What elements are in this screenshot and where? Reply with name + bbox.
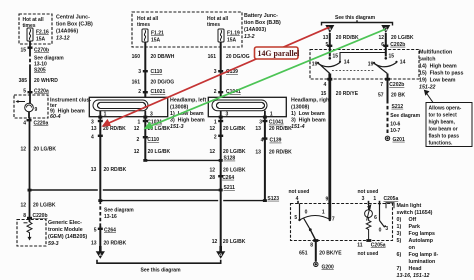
- svg-text:3: 3: [138, 69, 141, 75]
- svg-text:(13008): (13008): [170, 105, 188, 111]
- svg-text:20 LG/BK: 20 LG/BK: [223, 239, 246, 245]
- svg-text:Central Junc-: Central Junc-: [56, 15, 90, 21]
- svg-text:Headlamp, left: Headlamp, left: [170, 98, 206, 104]
- svg-text:Fog lamps: Fog lamps: [409, 231, 436, 237]
- svg-text:S211: S211: [224, 185, 236, 191]
- wire 13 20 RD/BK node A to multifunction switch: [329, 33, 331, 57]
- svg-text:12: 12: [134, 126, 140, 132]
- wire 12 20 LG/BK S128 to C264: [209, 167, 245, 173]
- svg-text:functions.: functions.: [429, 141, 453, 147]
- svg-text:20 RD/BK: 20 RD/BK: [269, 150, 292, 156]
- headlamp right pin 1 stub: [264, 111, 266, 121]
- svg-text:flash to pass: flash to pass: [429, 134, 460, 140]
- rotary pin 4 stub: [299, 204, 301, 220]
- wire 12 20 LG/BK S211 to GEM: [29, 190, 31, 222]
- svg-text:19: 19: [312, 61, 318, 67]
- svg-text:20 LG/BK: 20 LG/BK: [391, 35, 414, 41]
- wire dashed S212 segment: [387, 100, 389, 135]
- wire 12 20 LG/BK S211 down to arrow: [220, 190, 222, 246]
- wire 12 20 LG/BK node G to multifunction switch: [385, 33, 387, 57]
- svg-text:G200: G200: [322, 264, 334, 270]
- svg-text:switch (11654): switch (11654): [397, 210, 433, 216]
- svg-text:12: 12: [378, 35, 384, 41]
- svg-text:1: 1: [214, 120, 217, 126]
- multifunction left contacts 15 19 14: [317, 57, 341, 64]
- connector C220b pin 8: [23, 213, 47, 219]
- svg-text:Multifunction: Multifunction: [419, 50, 452, 56]
- svg-text:57: 57: [378, 92, 384, 98]
- svg-text:12: 12: [209, 149, 215, 155]
- svg-text:4: 4: [324, 82, 327, 88]
- svg-text:1: 1: [322, 210, 325, 216]
- svg-text:tion Box (CJB): tion Box (CJB): [56, 22, 93, 28]
- headlamp right bulb: [212, 100, 267, 111]
- svg-text:14G parallel: 14G parallel: [258, 49, 301, 58]
- svg-text:C220a: C220a: [34, 89, 49, 95]
- rotary travel arc: [300, 216, 332, 221]
- svg-text:12: 12: [209, 167, 215, 173]
- svg-text:1: 1: [138, 120, 141, 126]
- svg-text:20 BK: 20 BK: [391, 92, 406, 98]
- svg-text:S123: S123: [267, 196, 279, 202]
- svg-text:A: A: [99, 252, 102, 257]
- svg-text:15: 15: [321, 91, 327, 97]
- main light switch pin ticks: [298, 201, 380, 205]
- svg-text:7): 7): [397, 266, 402, 272]
- svg-text:20 RD/BK: 20 RD/BK: [104, 167, 127, 173]
- svg-text:C202b: C202b: [390, 42, 405, 48]
- svg-text:(14A003): (14A003): [244, 27, 266, 33]
- connector pins 2 and 4 C139: [214, 135, 282, 144]
- high beam indicator lamp 9: [16, 95, 34, 118]
- svg-text:15) Flash to pass: 15) Flash to pass: [419, 71, 464, 77]
- svg-text:1) Low beam: 1) Low beam: [291, 111, 325, 117]
- connector C1021 pin 2: [138, 89, 165, 95]
- svg-text:(13008): (13008): [291, 105, 309, 111]
- svg-text:12: 12: [134, 149, 140, 155]
- connector C139 pin 3: [214, 69, 238, 75]
- splice rail S128: [145, 159, 220, 161]
- Instrument cluster dashed box: [14, 95, 48, 118]
- wire 385 20 WH/RD: [29, 66, 31, 95]
- svg-text:C205a: C205a: [371, 242, 386, 248]
- svg-text:Off: Off: [409, 217, 417, 223]
- small switch 0 3 at pin 1: [380, 205, 385, 227]
- svg-text:not used: not used: [289, 189, 310, 195]
- svg-text:2: 2: [138, 89, 141, 95]
- svg-text:See this diagram: See this diagram: [141, 268, 182, 274]
- Main light switch dashed box: [291, 204, 393, 241]
- svg-text:20 LG/BK: 20 LG/BK: [33, 203, 56, 209]
- pin 8: [310, 239, 318, 248]
- svg-text:3: 3: [91, 120, 94, 126]
- svg-text:4: 4: [91, 135, 94, 141]
- connector C110 pin 3: [138, 69, 162, 75]
- headlamp right box: [208, 97, 286, 116]
- svg-text:11: 11: [357, 242, 363, 248]
- svg-text:10-6: 10-6: [390, 121, 400, 127]
- bracket: [322, 20, 393, 25]
- svg-text:20 BK/YE: 20 BK/YE: [319, 250, 342, 256]
- pin ticks right headlamp box bottom: [219, 116, 267, 119]
- svg-text:Park: Park: [409, 224, 421, 230]
- connector C220a pin 4: [23, 119, 48, 127]
- multifunction switch name label: [419, 50, 464, 91]
- svg-text:S128: S128: [224, 156, 236, 162]
- svg-text:2: 2: [137, 137, 140, 143]
- node A triangle: [325, 25, 334, 33]
- svg-text:13: 13: [255, 150, 261, 156]
- multifunction crossbar 14 to low beam wire: [340, 53, 386, 62]
- svg-text:12: 12: [20, 147, 26, 153]
- svg-text:161: 161: [208, 54, 217, 60]
- svg-text:13-2: 13-2: [244, 34, 255, 40]
- svg-text:Main light: Main light: [397, 203, 422, 209]
- arrow down left to see this diagram rail: [99, 246, 102, 253]
- main light switch name label: [397, 203, 439, 279]
- node S211 left junction: [28, 189, 32, 192]
- svg-text:4: 4: [23, 121, 26, 127]
- svg-text:S205: S205: [34, 68, 46, 74]
- red annotation line high beam parallel: [104, 27, 329, 125]
- svg-text:See diagram: See diagram: [390, 113, 420, 119]
- note box arrow: [425, 90, 434, 102]
- svg-text:20 DB/WH: 20 DB/WH: [151, 54, 175, 60]
- svg-text:60-4: 60-4: [50, 114, 61, 120]
- svg-text:tor to select: tor to select: [429, 113, 458, 119]
- svg-text:5: 5: [23, 89, 26, 95]
- svg-text:13: 13: [91, 167, 97, 173]
- svg-text:5): 5): [397, 238, 402, 244]
- svg-text:C110: C110: [151, 69, 163, 75]
- wire 57 20 BK to ground: [387, 74, 389, 101]
- splice S205: [34, 68, 46, 74]
- linkage dashed: [332, 70, 374, 72]
- svg-text:161: 161: [132, 80, 141, 86]
- ground G200: [314, 262, 318, 266]
- svg-text:15A: 15A: [36, 37, 46, 43]
- svg-text:3) High beam: 3) High beam: [291, 118, 326, 124]
- svg-text:15A: 15A: [151, 38, 161, 44]
- svg-text:13-16, 151-12: 13-16, 151-12: [397, 273, 430, 279]
- wire dashed see diagram 13-10: [29, 53, 31, 66]
- svg-text:7: 7: [332, 216, 335, 222]
- see this diagram top label: [335, 15, 376, 21]
- svg-text:F1.19: F1.19: [227, 31, 240, 37]
- wire 13 20 RD/BK below C139: [255, 150, 292, 156]
- svg-text:C205a: C205a: [384, 196, 399, 202]
- wire 161 20 DG/OG to C1021: [132, 80, 175, 86]
- svg-text:20 LG/BK: 20 LG/BK: [223, 126, 246, 132]
- Central Junction Box CJB dashed box: [19, 14, 52, 44]
- multifunction right contacts 15 19 14: [373, 57, 398, 64]
- svg-text:6: 6: [374, 215, 377, 221]
- svg-text:14) High beam: 14) High beam: [419, 64, 457, 70]
- svg-text:G201: G201: [393, 137, 405, 143]
- svg-text:3: 3: [214, 69, 217, 75]
- svg-text:C264: C264: [222, 175, 234, 181]
- svg-text:13: 13: [323, 35, 329, 41]
- svg-text:Headlamp, right: Headlamp, right: [291, 98, 331, 104]
- svg-text:F2.16: F2.16: [36, 30, 49, 36]
- svg-text:5: 5: [94, 228, 97, 234]
- wire 13 20 RD/BK mid label: [91, 167, 127, 173]
- svg-text:6): 6): [397, 252, 402, 258]
- svg-text:13-16: 13-16: [104, 214, 117, 220]
- Battery Junction Box BJB dashed box: [132, 12, 242, 47]
- svg-text:0): 0): [397, 217, 402, 223]
- svg-text:20 RD/YE: 20 RD/YE: [336, 91, 359, 97]
- green arrowhead: [144, 121, 154, 129]
- svg-text:19) Low beam: 19) Low beam: [419, 78, 456, 84]
- green annotation line low beam parallel: [147, 29, 386, 128]
- rotary switch wiper: [304, 218, 311, 230]
- svg-text:Autolamp: Autolamp: [409, 238, 434, 244]
- svg-text:20 RD/BK: 20 RD/BK: [336, 35, 359, 41]
- CJB name label: [56, 15, 93, 42]
- red arrowhead: [102, 119, 112, 127]
- connector C270b pin 15: [20, 47, 49, 54]
- svg-text:20 WH/RD: 20 WH/RD: [34, 78, 58, 84]
- svg-text:3: 3: [150, 112, 153, 118]
- svg-text:151-3: 151-3: [170, 124, 184, 130]
- svg-text:G: G: [219, 252, 222, 257]
- svg-text:0: 0: [379, 228, 382, 234]
- svg-text:Battery Junc-: Battery Junc-: [244, 13, 278, 19]
- svg-text:20 DG/OG: 20 DG/OG: [151, 80, 175, 86]
- headlamp left pin 1 stub: [99, 111, 101, 121]
- svg-text:2: 2: [214, 89, 217, 95]
- connector C1041 below right headlamp: [214, 120, 284, 126]
- svg-text:S212: S212: [392, 104, 404, 110]
- Generic Electronic Module GEM dashed box: [17, 220, 46, 247]
- resistor below lamp: [366, 218, 371, 241]
- svg-text:Allows opera-: Allows opera-: [429, 106, 462, 112]
- svg-text:4: 4: [261, 138, 264, 144]
- svg-text:See diagram: See diagram: [104, 208, 134, 214]
- multifunction left wiper arc: [318, 63, 340, 74]
- svg-text:switch: switch: [419, 57, 435, 63]
- svg-text:20 RD/BK: 20 RD/BK: [104, 241, 127, 247]
- fuse F2.16 15A: [27, 28, 33, 41]
- svg-text:C270b: C270b: [34, 48, 49, 54]
- multifunction right wiper arc: [374, 63, 397, 74]
- connector C220a pin 5: [23, 89, 49, 95]
- connector bracket icon: [386, 203, 394, 209]
- svg-text:3) High beam: 3) High beam: [170, 118, 205, 124]
- headlamp right pin 3 stub: [220, 111, 222, 121]
- svg-text:on: on: [409, 245, 415, 251]
- svg-text:20 DG/OG: 20 DG/OG: [226, 54, 250, 60]
- svg-text:Fog lamp il-: Fog lamp il-: [409, 252, 439, 258]
- svg-text:low beam or: low beam or: [429, 127, 458, 133]
- wire dashed see diagram 13-16: [99, 201, 101, 226]
- rotary wiper to pin 8: [310, 230, 316, 241]
- headlamp right name label: [291, 98, 331, 131]
- connector C264 pin 28: [209, 175, 234, 181]
- svg-text:151-22: 151-22: [419, 85, 436, 91]
- svg-text:12: 12: [209, 126, 215, 132]
- svg-text:high beam,: high beam,: [429, 120, 456, 126]
- svg-text:13: 13: [91, 126, 97, 132]
- svg-text:13: 13: [91, 241, 97, 247]
- svg-text:tronic Module: tronic Module: [48, 227, 83, 233]
- svg-text:1): 1): [397, 224, 402, 230]
- headlamp left bulb: [93, 100, 148, 111]
- note box allows operator: [426, 103, 472, 147]
- svg-text:20 LG/BK: 20 LG/BK: [223, 149, 246, 155]
- svg-text:19: 19: [368, 61, 374, 67]
- svg-text:14: 14: [344, 59, 350, 65]
- svg-text:0: 0: [305, 209, 308, 215]
- BJB label Hot at all times right: [207, 16, 229, 28]
- svg-text:15A: 15A: [227, 38, 237, 44]
- see this diagram bottom rail: [97, 260, 221, 263]
- svg-text:151-4: 151-4: [291, 124, 305, 130]
- pin 11 C205a not used: [357, 239, 386, 257]
- splice rail S211: [30, 189, 221, 191]
- multifunction pin 4: [324, 78, 333, 88]
- svg-text:tion Box (BJB): tion Box (BJB): [244, 20, 281, 26]
- svg-text:15: 15: [389, 53, 395, 59]
- wire 12 20 LG/BK above S128: [209, 149, 245, 155]
- svg-text:Head: Head: [409, 266, 422, 272]
- svg-text:160: 160: [132, 54, 141, 60]
- svg-text:12: 12: [20, 203, 26, 209]
- arrow down right to see this diagram rail: [219, 246, 222, 253]
- svg-text:C1041: C1041: [269, 120, 284, 126]
- svg-text:8: 8: [310, 242, 313, 248]
- 14G parallel callout box: [255, 47, 301, 59]
- ground G201: [385, 136, 389, 140]
- svg-text:C202b: C202b: [389, 82, 404, 88]
- svg-text:3: 3: [362, 196, 365, 202]
- svg-text:651: 651: [299, 250, 308, 256]
- main light switch lamp 6: [365, 205, 373, 221]
- svg-text:12: 12: [212, 239, 218, 245]
- wire 13 20 RD/BK left headlamp high beam: [99, 121, 101, 201]
- BJB label Hot at all times left: [137, 16, 159, 28]
- pin ticks left headlamp box bottom: [98, 116, 147, 119]
- multifunction pin 7 C202b: [380, 78, 404, 88]
- node G triangle: [381, 25, 390, 33]
- fuse F1.21 15A: [142, 29, 148, 42]
- svg-text:14: 14: [400, 59, 406, 65]
- svg-text:times: times: [137, 22, 150, 28]
- svg-text:20 RD/BK: 20 RD/BK: [269, 126, 292, 132]
- svg-text:10-7: 10-7: [390, 128, 400, 134]
- GEM internal resistor and arrow: [24, 222, 33, 241]
- wire 12 20 LG/BK cluster to S211: [29, 118, 31, 190]
- svg-text:3: 3: [385, 226, 388, 232]
- wire 13 20 RD/BK right headlamp high beam: [264, 121, 266, 201]
- headlamp left box: [89, 97, 167, 116]
- svg-text:385: 385: [19, 78, 28, 84]
- main light switch pins top labels: [289, 189, 399, 202]
- svg-text:1: 1: [373, 196, 376, 202]
- wire 12 20 LG/BK to S128: [134, 149, 171, 155]
- connector C110 pins 4 2: [91, 135, 159, 143]
- wire 12 20 LG/BK left headlamp low beam: [144, 121, 146, 160]
- svg-text:2: 2: [214, 135, 217, 141]
- svg-text:20 LG/BK: 20 LG/BK: [148, 149, 171, 155]
- svg-text:15: 15: [333, 53, 339, 59]
- svg-text:C139: C139: [270, 138, 282, 144]
- wire 160 20 DB/WH fuse F1.21 to C110: [144, 42, 146, 97]
- svg-text:5: 5: [294, 215, 297, 221]
- svg-text:C264: C264: [104, 228, 116, 234]
- svg-text:20 RD/BK: 20 RD/BK: [103, 126, 126, 132]
- svg-text:(14A066): (14A066): [56, 29, 78, 35]
- headlamp left name label: [170, 98, 206, 131]
- svg-text:F1.21: F1.21: [151, 31, 164, 37]
- svg-text:3): 3): [397, 231, 402, 237]
- svg-text:times: times: [207, 22, 220, 28]
- GEM name label: [48, 220, 87, 247]
- svg-text:20 LG/BK: 20 LG/BK: [223, 167, 246, 173]
- fuse F1.19 15A: [218, 29, 224, 42]
- svg-text:Generic Elec-: Generic Elec-: [48, 220, 82, 226]
- CJB label Hot at all times: [23, 17, 45, 29]
- svg-text:3: 3: [226, 112, 229, 118]
- svg-text:C220a: C220a: [34, 121, 49, 127]
- BJB name label: [244, 13, 281, 40]
- wire F2.16 to C270b: [29, 41, 31, 53]
- wire 12 20 LG/BK right headlamp low beam: [220, 121, 222, 190]
- connector C1041 pin 2: [214, 89, 241, 95]
- svg-text:9: 9: [326, 196, 329, 202]
- wire 161 20 DG/OG fuse F1.19 to C139: [220, 42, 222, 97]
- svg-text:20 LG/BK: 20 LG/BK: [34, 147, 57, 153]
- splice rail S123: [100, 200, 265, 202]
- svg-text:not used: not used: [358, 251, 379, 257]
- svg-text:8: 8: [23, 213, 26, 219]
- svg-text:59-3: 59-3: [48, 241, 59, 247]
- svg-text:not used: not used: [358, 189, 379, 195]
- svg-text:See this diagram: See this diagram: [335, 15, 376, 21]
- wire 15 20 RD/YE multifunction to main light switch: [328, 74, 331, 220]
- rotary switch contacts 5 0 1 7: [294, 209, 335, 222]
- svg-text:lumination: lumination: [409, 259, 436, 265]
- svg-text:1: 1: [104, 112, 107, 118]
- headlamp left pin 3 stub: [144, 111, 146, 121]
- connector C264 pin 5: [94, 228, 116, 234]
- svg-text:1: 1: [270, 112, 273, 118]
- Multifunction switch dashed box: [310, 50, 419, 80]
- svg-text:13: 13: [255, 126, 261, 132]
- svg-text:(GEM) (14B205): (GEM) (14B205): [48, 234, 87, 240]
- wire 13 20 RD/BK to bottom arrow: [99, 226, 101, 246]
- svg-text:C1021: C1021: [151, 89, 166, 95]
- svg-text:7: 7: [380, 82, 383, 88]
- svg-text:15: 15: [20, 48, 26, 54]
- wire 651 20 BK/YE to ground: [315, 241, 317, 262]
- connector C1021 below left headlamp: [91, 120, 162, 126]
- svg-text:C110: C110: [147, 137, 159, 143]
- instrument cluster name label: [50, 98, 91, 121]
- svg-text:9: 9: [35, 107, 38, 113]
- svg-text:28: 28: [209, 175, 215, 181]
- svg-text:3: 3: [259, 120, 262, 126]
- svg-text:C220b: C220b: [33, 213, 48, 219]
- svg-text:13-12: 13-12: [56, 36, 70, 42]
